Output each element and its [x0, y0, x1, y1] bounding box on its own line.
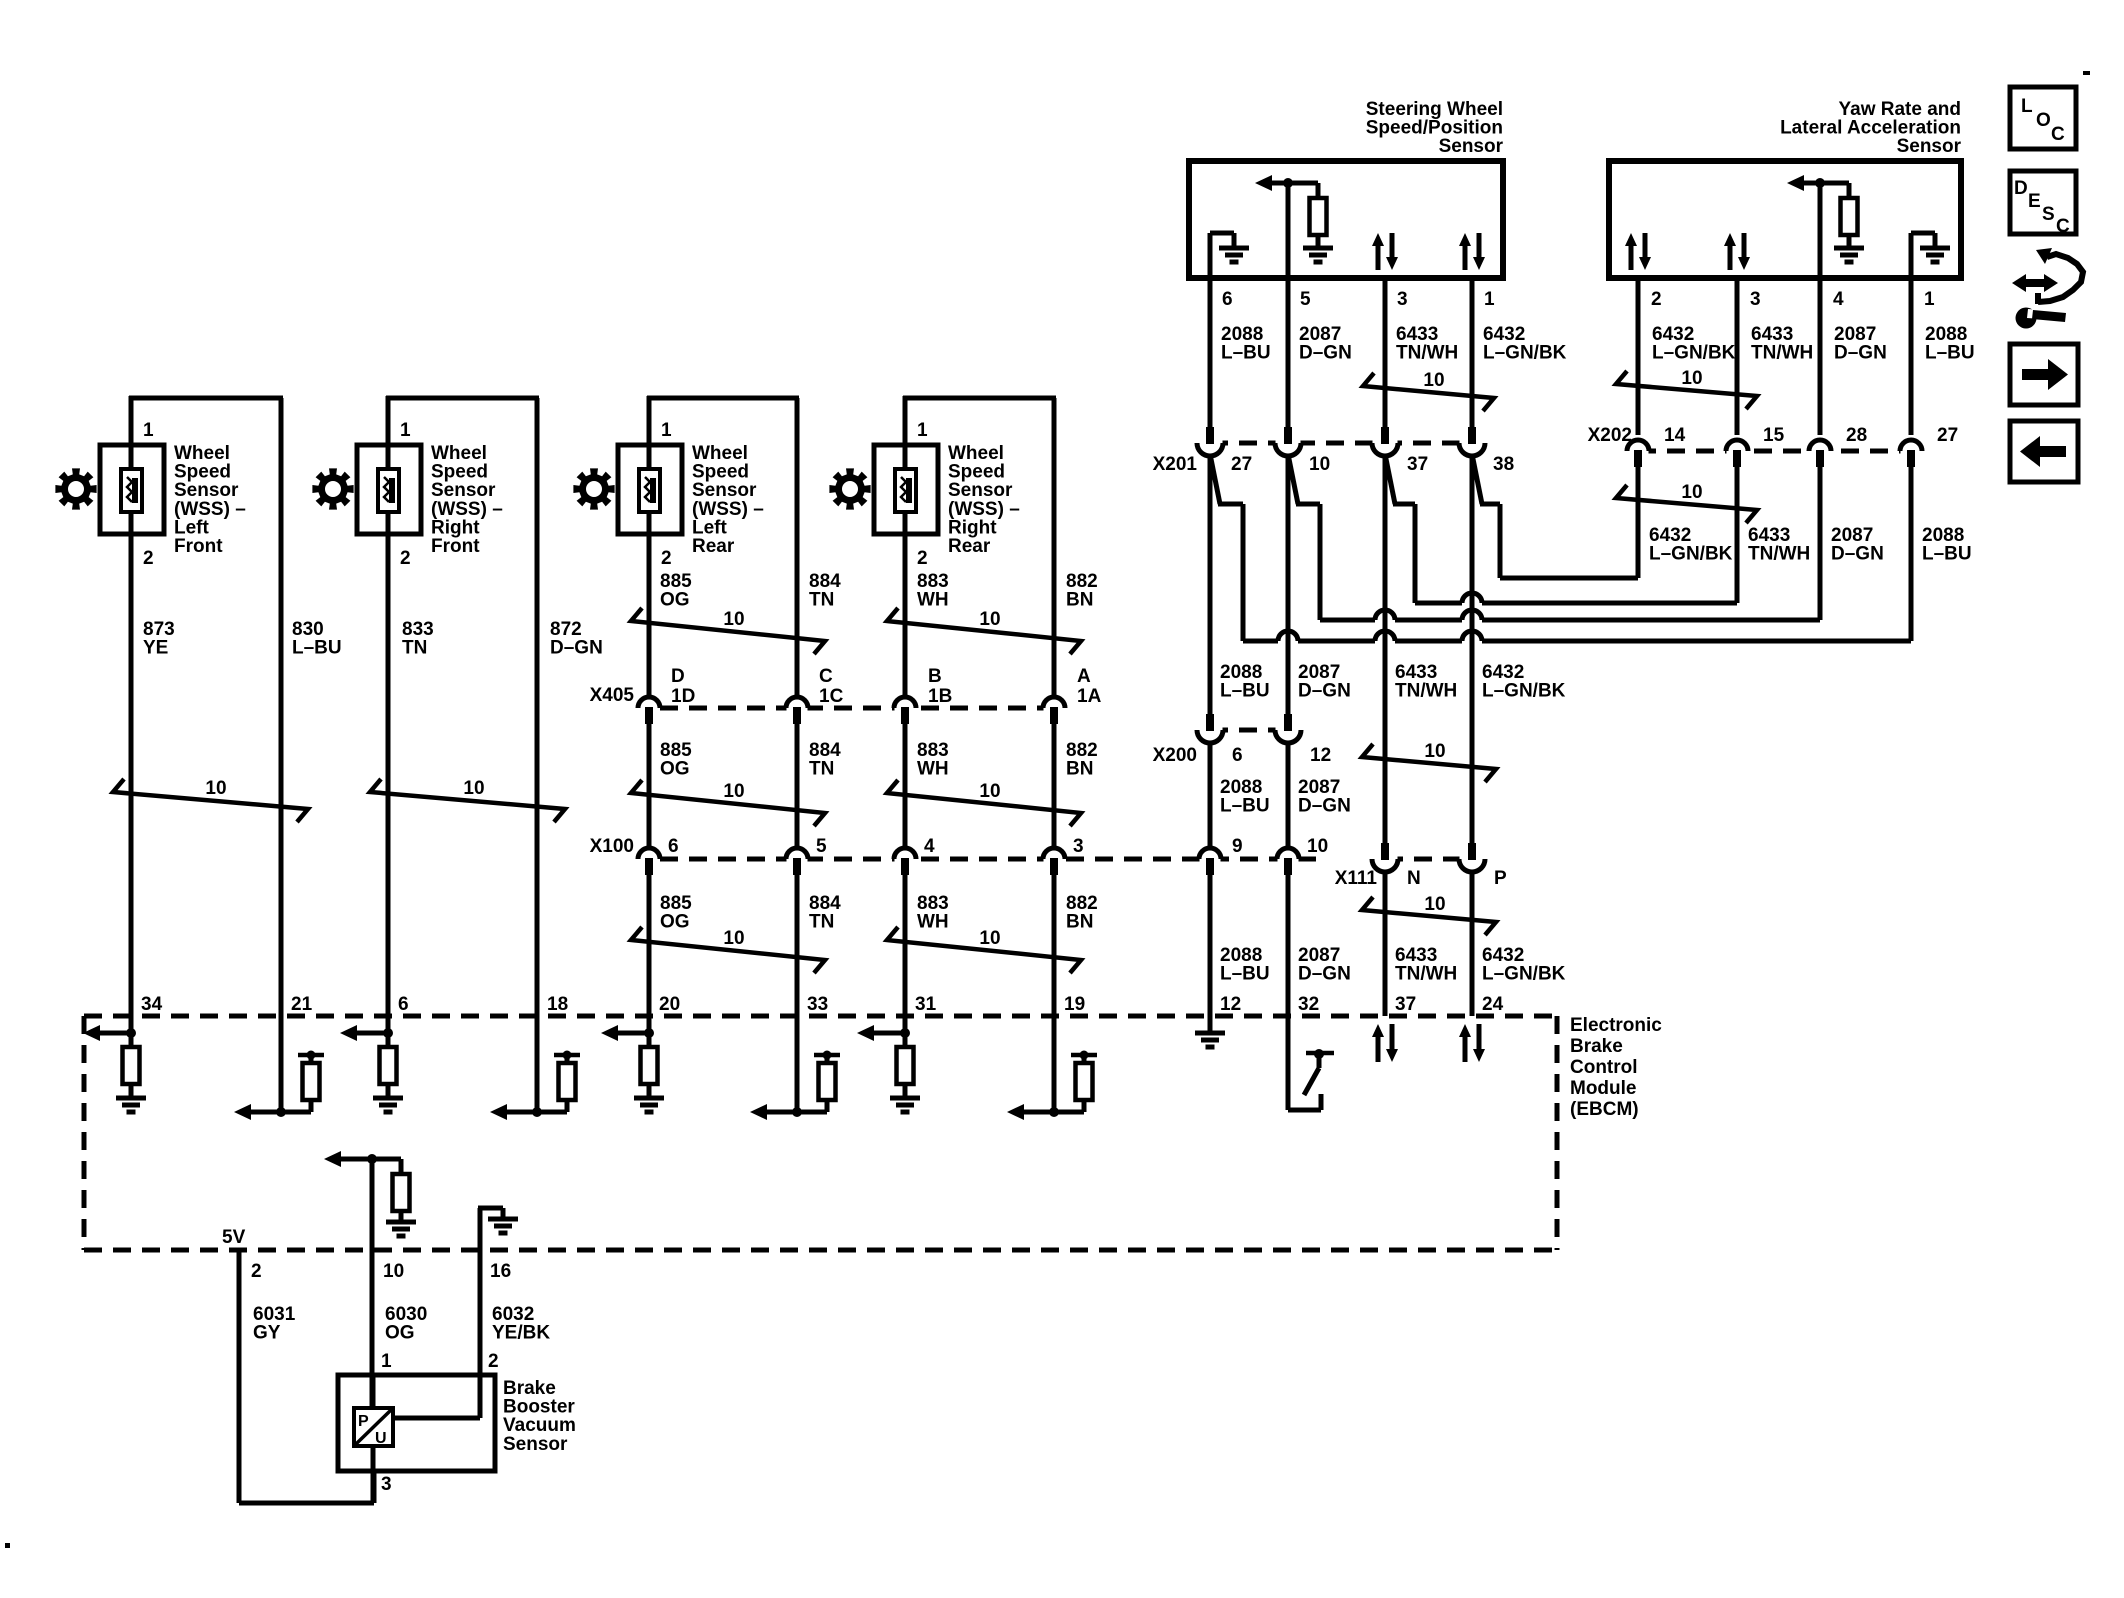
- svg-text:TN/WH: TN/WH: [1395, 681, 1457, 702]
- svg-text:2: 2: [1651, 289, 1662, 310]
- svg-text:D–GN: D–GN: [1831, 544, 1884, 565]
- svg-text:Front: Front: [174, 536, 223, 557]
- svg-text:15: 15: [1763, 425, 1785, 446]
- wire 2087 (X201 to X200): [1286, 454, 1291, 714]
- svg-text:4: 4: [1833, 289, 1844, 310]
- svg-text:Sensor: Sensor: [503, 1434, 568, 1455]
- steering sensor pin 3 signal arrows: [1376, 244, 1381, 270]
- svg-text:TN: TN: [809, 590, 834, 611]
- svg-text:9: 9: [1232, 836, 1243, 857]
- EBCM internal pull network pin 34 (arrow, resistor, ground): [129, 1016, 134, 1047]
- svg-text:3: 3: [1750, 289, 1761, 310]
- svg-text:1: 1: [143, 420, 154, 441]
- EBCM internal pull network pin 21 (resistor to rail, arrow): [279, 1016, 284, 1112]
- wire: WSS RF pin 1 / return loop: [386, 396, 391, 1016]
- svg-text:1: 1: [381, 1351, 392, 1372]
- svg-text:10: 10: [723, 928, 744, 949]
- svg-text:TN: TN: [809, 759, 834, 780]
- svg-text:YE: YE: [143, 638, 168, 659]
- harness bundle 10 (right front pair): [370, 779, 565, 822]
- svg-text:S: S: [2042, 204, 2055, 225]
- svg-text:31: 31: [915, 994, 937, 1015]
- svg-text:12: 12: [1220, 994, 1241, 1015]
- harness bundle 10 (right rear pair): [887, 780, 1081, 826]
- svg-text:X202: X202: [1588, 425, 1632, 446]
- gear icon RF: [312, 468, 353, 509]
- svg-text:L–GN/BK: L–GN/BK: [1649, 544, 1733, 565]
- svg-text:1D: 1D: [671, 686, 695, 707]
- svg-text:OG: OG: [660, 759, 690, 780]
- EBCM pin 12 internal ground: [1208, 1016, 1213, 1032]
- svg-text:32: 32: [1298, 994, 1319, 1015]
- connector X405: [660, 706, 1045, 711]
- svg-text:O: O: [2036, 110, 2051, 131]
- EBCM internal pull network pin 6 (arrow, resistor, ground): [386, 1016, 391, 1047]
- crossover wire from X201 @1210 to X202 @1911: [1210, 454, 1220, 504]
- svg-text:10: 10: [979, 609, 1000, 630]
- svg-text:1: 1: [661, 420, 672, 441]
- connector X200: [1210, 728, 1288, 733]
- svg-text:L–BU: L–BU: [292, 638, 342, 659]
- steering sensor internal ground (pin 6): [1208, 233, 1213, 278]
- svg-text:L–BU: L–BU: [1221, 343, 1271, 364]
- svg-text:X100: X100: [590, 836, 634, 857]
- svg-text:WH: WH: [917, 759, 949, 780]
- svg-text:10: 10: [1424, 894, 1445, 915]
- svg-text:Module: Module: [1570, 1078, 1637, 1099]
- svg-text:X200: X200: [1153, 745, 1197, 766]
- wheel speed sensor LF component box: [100, 445, 164, 534]
- svg-text:16: 16: [490, 1261, 511, 1282]
- svg-text:10: 10: [979, 781, 1000, 802]
- svg-text:33: 33: [807, 994, 828, 1015]
- svg-text:1C: 1C: [819, 686, 844, 707]
- harness bundle 10 (below X202): [1616, 485, 1757, 523]
- svg-text:P: P: [358, 1413, 369, 1430]
- svg-text:5: 5: [1300, 289, 1311, 310]
- svg-text:D–GN: D–GN: [1298, 681, 1351, 702]
- svg-text:B: B: [928, 666, 942, 687]
- svg-text:27: 27: [1937, 425, 1958, 446]
- forward arrow box: [2010, 344, 2078, 405]
- svg-text:L–GN/BK: L–GN/BK: [1652, 343, 1736, 364]
- harness bundle 10 (below X111): [1362, 897, 1496, 935]
- svg-text:L: L: [2021, 96, 2033, 117]
- svg-text:Rear: Rear: [692, 536, 735, 557]
- P/U pressure transducer symbol: [354, 1408, 393, 1446]
- wire: [1909, 278, 1914, 435]
- svg-text:D–GN: D–GN: [1298, 796, 1351, 817]
- svg-text:10: 10: [979, 928, 1000, 949]
- svg-text:L–GN/BK: L–GN/BK: [1482, 681, 1566, 702]
- svg-text:(EBCM): (EBCM): [1570, 1099, 1639, 1120]
- yaw sensor internal ground (pin 1): [1909, 233, 1914, 278]
- EBCM pin 24 bidirectional signal arrows: [1463, 1035, 1468, 1062]
- svg-text:4: 4: [924, 836, 935, 857]
- wire 2088 (X201 to X200): [1208, 454, 1213, 714]
- tick mark top right: [2083, 71, 2090, 75]
- wire: WSS LF pin 1 / return loop: [129, 396, 134, 1016]
- wire: [1636, 278, 1641, 435]
- connector X201: [1210, 441, 1472, 446]
- svg-text:E: E: [2028, 191, 2041, 212]
- svg-text:10: 10: [1681, 368, 1702, 389]
- svg-text:X405: X405: [590, 685, 635, 706]
- wire: WSS RR pin 1 / return loop: [903, 396, 908, 1016]
- svg-text:10: 10: [1309, 454, 1330, 475]
- svg-text:P: P: [1494, 868, 1507, 889]
- svg-text:10: 10: [723, 781, 744, 802]
- svg-text:2: 2: [251, 1261, 262, 1282]
- svg-text:6: 6: [1232, 745, 1243, 766]
- svg-text:Sensor: Sensor: [1439, 136, 1504, 157]
- svg-text:OG: OG: [660, 912, 690, 933]
- svg-text:1: 1: [917, 420, 928, 441]
- wire 2088 to EBCM pin 12: [1208, 875, 1213, 1016]
- wire 6433 (X201 to X111): [1383, 454, 1388, 843]
- svg-text:2: 2: [917, 548, 928, 569]
- svg-text:28: 28: [1846, 425, 1867, 446]
- svg-text:2: 2: [661, 548, 672, 569]
- wire 6432 to EBCM pin 24: [1470, 873, 1475, 1016]
- svg-text:1A: 1A: [1077, 686, 1102, 707]
- EBCM internal pull network pin 31 (arrow, resistor, ground): [903, 1016, 908, 1047]
- svg-text:L–BU: L–BU: [1220, 964, 1270, 985]
- harness bundle 10 (left rear pair): [631, 780, 825, 826]
- svg-text:20: 20: [659, 994, 680, 1015]
- svg-text:TN: TN: [402, 638, 427, 659]
- harness bundle 10 (left rear pair): [631, 608, 825, 654]
- svg-text:10: 10: [723, 609, 744, 630]
- vehicle repair icon: [2012, 274, 2058, 292]
- svg-text:Electronic: Electronic: [1570, 1015, 1662, 1036]
- svg-text:14: 14: [1664, 425, 1686, 446]
- svg-text:10: 10: [1681, 482, 1702, 503]
- svg-text:OG: OG: [385, 1323, 415, 1344]
- svg-text:3: 3: [1397, 289, 1408, 310]
- wire 2087 (X200 to X100): [1286, 741, 1291, 848]
- EBCM internal pull network pin 19 (resistor to rail, arrow): [1052, 1016, 1057, 1112]
- EBCM internal 5V reference (pin 10 branch: arrow, resistor, ground): [370, 1159, 375, 1249]
- steering sensor internal supply (pin 5: arrow, resistor, ground): [1286, 183, 1291, 278]
- crossover wire from X201 @1288 to X202 @1820: [1288, 454, 1298, 504]
- wire: [1383, 278, 1388, 427]
- EBCM internal pull network pin 20 (arrow, resistor, ground): [647, 1016, 652, 1047]
- harness bundle 10 (6433/6432 mid): [1362, 744, 1496, 782]
- DESC reference box: [2010, 171, 2076, 234]
- svg-text:N: N: [1407, 868, 1421, 889]
- wire: [1286, 278, 1291, 427]
- svg-text:WH: WH: [917, 912, 949, 933]
- harness bundle 10 (left front pair): [113, 779, 308, 822]
- svg-text:C: C: [819, 666, 833, 687]
- wire: [1735, 278, 1740, 435]
- svg-text:19: 19: [1064, 994, 1085, 1015]
- wire 6032 YE/BK: [478, 1249, 483, 1418]
- gear icon LF: [55, 468, 96, 509]
- gear icon RR: [829, 468, 870, 509]
- svg-text:TN/WH: TN/WH: [1751, 343, 1813, 364]
- svg-text:U: U: [375, 1430, 387, 1447]
- svg-text:Front: Front: [431, 536, 480, 557]
- svg-text:A: A: [1077, 666, 1091, 687]
- crossover wire from X201 @1385 to X202 @1737: [1385, 454, 1395, 504]
- svg-text:D: D: [671, 666, 685, 687]
- wheel speed sensor LR component box: [618, 445, 682, 534]
- svg-text:L–BU: L–BU: [1220, 796, 1270, 817]
- tick mark bottom left: [5, 1543, 10, 1548]
- svg-text:5V: 5V: [222, 1227, 246, 1248]
- svg-text:10: 10: [383, 1261, 404, 1282]
- svg-text:10: 10: [205, 778, 226, 799]
- svg-text:X111: X111: [1335, 868, 1378, 889]
- svg-text:2: 2: [400, 548, 411, 569]
- svg-text:BN: BN: [1066, 590, 1093, 611]
- svg-text:24: 24: [1482, 994, 1504, 1015]
- svg-text:21: 21: [291, 994, 313, 1015]
- svg-text:L–BU: L–BU: [1220, 681, 1270, 702]
- svg-text:10: 10: [1424, 741, 1445, 762]
- wire 6031 GY: [237, 1249, 242, 1503]
- svg-text:6: 6: [398, 994, 409, 1015]
- svg-text:1B: 1B: [928, 686, 952, 707]
- harness bundle 10 (yaw 6432/6433 pair): [1616, 371, 1757, 409]
- LOC reference box: [2010, 87, 2076, 149]
- EBCM pin 37 bidirectional signal arrows: [1376, 1035, 1381, 1062]
- Steering Wheel Speed/Position Sensor box: [1189, 161, 1503, 278]
- yaw sensor pin 3 signal arrows: [1728, 244, 1733, 270]
- svg-text:10: 10: [463, 778, 484, 799]
- gear icon LR: [573, 468, 614, 509]
- svg-text:1: 1: [400, 420, 411, 441]
- EBCM pin 32 internal switch: [1286, 1016, 1291, 1110]
- EBCM internal ground (pin 16 branch): [478, 1208, 483, 1249]
- svg-text:3: 3: [1073, 836, 1084, 857]
- svg-text:6: 6: [1222, 289, 1233, 310]
- svg-text:D–GN: D–GN: [1298, 964, 1351, 985]
- svg-text:6: 6: [668, 836, 679, 857]
- svg-text:TN/WH: TN/WH: [1748, 544, 1810, 565]
- svg-text:Rear: Rear: [948, 536, 991, 557]
- svg-text:34: 34: [141, 994, 163, 1015]
- svg-text:1: 1: [1924, 289, 1935, 310]
- wire: [1208, 278, 1213, 427]
- svg-text:C: C: [2051, 124, 2065, 145]
- svg-text:YE/BK: YE/BK: [492, 1323, 550, 1344]
- EBCM internal pull network pin 33 (resistor to rail, arrow): [795, 1016, 800, 1112]
- svg-text:18: 18: [547, 994, 568, 1015]
- wire 6433 to EBCM pin 37: [1383, 873, 1388, 1016]
- wheel speed sensor RR component box: [874, 445, 938, 534]
- wire 2087 to EBCM pin 32: [1286, 875, 1291, 1016]
- wire: WSS LR pin 1 / return loop: [647, 396, 652, 1016]
- svg-text:OG: OG: [660, 590, 690, 611]
- svg-text:2: 2: [488, 1351, 499, 1372]
- wire 2088 (X200 to X100): [1208, 741, 1213, 848]
- back arrow box: [2010, 421, 2078, 482]
- connector X111: [1385, 857, 1472, 862]
- Brake Booster Vacuum Sensor box: [338, 1375, 495, 1471]
- svg-text:TN: TN: [809, 912, 834, 933]
- yaw sensor pin 2 signal arrows: [1629, 244, 1634, 270]
- svg-text:L–BU: L–BU: [1922, 544, 1972, 565]
- svg-text:BN: BN: [1066, 912, 1093, 933]
- svg-text:37: 37: [1395, 994, 1416, 1015]
- svg-text:5: 5: [816, 836, 827, 857]
- svg-text:WH: WH: [917, 590, 949, 611]
- Electronic Brake Control Module (EBCM) box: [84, 1014, 1557, 1019]
- svg-text:10: 10: [1307, 836, 1328, 857]
- connector X100: [660, 857, 1324, 862]
- EBCM internal pull network pin 18 (resistor to rail, arrow): [535, 1016, 540, 1112]
- svg-text:D–GN: D–GN: [1834, 343, 1887, 364]
- svg-text:3: 3: [381, 1474, 392, 1495]
- connector X202: [1638, 449, 1911, 454]
- svg-text:D–GN: D–GN: [1299, 343, 1352, 364]
- svg-text:27: 27: [1231, 454, 1252, 475]
- svg-text:TN/WH: TN/WH: [1396, 343, 1458, 364]
- svg-text:12: 12: [1310, 745, 1331, 766]
- yaw sensor internal supply (pin 4: arrow, resistor, ground): [1818, 183, 1823, 278]
- crossover wire from X201 @1472 to X202 @1638: [1472, 454, 1482, 504]
- harness bundle 10 (right rear pair): [887, 608, 1081, 654]
- harness bundle 10 (6433/6432 pair): [1363, 373, 1494, 411]
- Yaw Rate and Lateral Acceleration Sensor box: [1609, 161, 1961, 278]
- svg-text:D–GN: D–GN: [550, 638, 603, 659]
- wheel speed sensor RF component box: [357, 445, 421, 534]
- svg-text:10: 10: [1423, 370, 1444, 391]
- steering sensor pin 1 signal arrows: [1463, 244, 1468, 270]
- svg-text:L–GN/BK: L–GN/BK: [1483, 343, 1567, 364]
- wire 6030 OG: [370, 1249, 375, 1411]
- svg-text:C: C: [2056, 216, 2070, 237]
- svg-text:37: 37: [1407, 454, 1428, 475]
- svg-text:BN: BN: [1066, 759, 1093, 780]
- svg-text:TN/WH: TN/WH: [1395, 964, 1457, 985]
- wire 6432 (X201 to X111): [1470, 454, 1475, 843]
- wire: [1818, 278, 1823, 435]
- svg-text:38: 38: [1493, 454, 1514, 475]
- svg-text:1: 1: [1484, 289, 1495, 310]
- svg-text:Sensor: Sensor: [1897, 136, 1962, 157]
- harness bundle 10 (right rear pair): [887, 927, 1081, 973]
- svg-text:Control: Control: [1570, 1057, 1638, 1078]
- svg-text:GY: GY: [253, 1323, 281, 1344]
- svg-text:X201: X201: [1153, 454, 1198, 475]
- svg-text:L–GN/BK: L–GN/BK: [1482, 964, 1566, 985]
- svg-text:Brake: Brake: [1570, 1036, 1623, 1057]
- wire: [1470, 278, 1475, 427]
- svg-text:D: D: [2014, 178, 2028, 199]
- svg-text:2: 2: [143, 548, 154, 569]
- svg-text:L–BU: L–BU: [1925, 343, 1975, 364]
- harness bundle 10 (left rear pair): [631, 927, 825, 973]
